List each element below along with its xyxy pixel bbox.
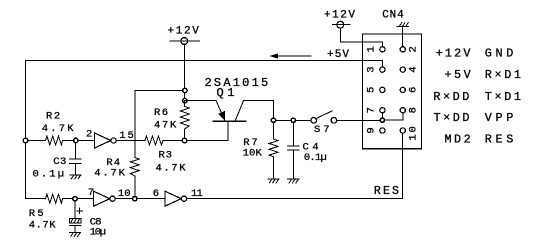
resistor R4: [130, 158, 139, 177]
svg-text:0.1µ: 0.1µ: [304, 152, 327, 164]
wire row2 left lead: [26, 198, 46, 200]
wire R2 to gate1: [63, 140, 95, 142]
capacitor C3: [33, 141, 81, 181]
svg-text:T×D1: T×D1: [485, 90, 521, 104]
svg-text:10K: 10K: [243, 148, 263, 160]
wire +5V rail top: [26, 61, 383, 70]
node junction +12V lower: [183, 98, 187, 102]
resistor R2: [46, 136, 63, 145]
svg-text:+5V: +5V: [445, 68, 472, 82]
svg-text:2: 2: [86, 129, 92, 141]
svg-text:S7: S7: [314, 124, 330, 136]
node junction +12V upper: [183, 88, 187, 92]
resistor R3: [145, 136, 163, 145]
ground R7: [268, 179, 279, 183]
wire S7 to connector: [337, 119, 383, 121]
node junction R7: [271, 118, 275, 122]
wire row2 to RES: [187, 198, 403, 200]
ground C4: [288, 179, 299, 183]
svg-text:R×D1: R×D1: [485, 68, 521, 82]
arrow +5V direction: [272, 55, 312, 57]
svg-text:2SA1015: 2SA1015: [205, 76, 269, 90]
right net table: [433, 47, 521, 147]
node junction C8: [73, 197, 77, 201]
ground C8: [69, 232, 80, 236]
wire pin7 stem: [381, 110, 383, 120]
wire RES from pin10: [402, 131, 404, 199]
svg-text:4.7K: 4.7K: [156, 163, 187, 175]
svg-text:+5V: +5V: [327, 49, 349, 61]
capacitor C8 electrolytic: [69, 199, 106, 239]
svg-text:+12V: +12V: [168, 26, 200, 38]
svg-text:RES: RES: [374, 185, 399, 198]
svg-text:MD2: MD2: [445, 133, 471, 147]
ground C3: [70, 175, 81, 179]
svg-text:+12V: +12V: [324, 9, 355, 21]
svg-text:GND: GND: [485, 47, 514, 61]
wire +12V branch to R4: [135, 90, 185, 92]
wire output row: [274, 119, 312, 121]
svg-text:4: 4: [408, 66, 420, 72]
svg-text:3: 3: [366, 66, 378, 72]
svg-text:4.7K: 4.7K: [42, 123, 74, 135]
capacitor C4: [288, 120, 327, 179]
inverter gate U1a: [95, 133, 111, 148]
svg-text:5: 5: [366, 87, 378, 93]
resistor R7: [243, 120, 278, 179]
svg-text:10: 10: [118, 188, 131, 200]
wire left rail: [25, 61, 27, 199]
svg-text:4.7K: 4.7K: [94, 167, 125, 179]
transistor Q1 2SA1015: [185, 76, 274, 121]
svg-text:C3: C3: [53, 156, 66, 168]
svg-text:VPP: VPP: [485, 111, 514, 125]
node junction C3: [74, 138, 78, 142]
wire gate2 out: [115, 198, 165, 200]
node junction C4: [291, 118, 295, 122]
wire pin8 branch: [382, 110, 402, 120]
wire row1 left lead: [26, 140, 46, 142]
wire R5 to gate2: [63, 198, 94, 200]
svg-text:+12V: +12V: [436, 47, 472, 61]
chassis ground pin2: [397, 23, 409, 50]
wire vertical R4 line: [134, 91, 136, 158]
svg-text:R3: R3: [159, 150, 173, 162]
inverter gate U1b: [94, 191, 110, 206]
svg-text:T×DD: T×DD: [434, 111, 470, 125]
svg-text:CN4: CN4: [382, 9, 404, 21]
connector pins left column: [380, 47, 385, 133]
switch S7: [311, 111, 337, 136]
node junction pin7/8: [380, 118, 384, 122]
svg-text:1: 1: [366, 46, 378, 52]
node junction R4 bottom: [133, 197, 137, 201]
wire R3 to base stem: [163, 121, 228, 140]
svg-text:R2: R2: [46, 110, 60, 122]
connector CN4 box: [363, 34, 422, 149]
power +12V symbol B: [324, 9, 383, 49]
svg-text:R×DD: R×DD: [433, 90, 469, 104]
power +12V symbol A: [168, 26, 200, 101]
svg-text:8: 8: [408, 107, 420, 113]
svg-text:10µ: 10µ: [90, 226, 106, 238]
svg-text:R6: R6: [154, 107, 168, 119]
svg-text:6: 6: [153, 188, 159, 200]
svg-text:7: 7: [366, 107, 378, 113]
svg-text:10: 10: [408, 126, 420, 140]
svg-text:6: 6: [408, 87, 420, 93]
inverter gate U1c: [165, 191, 181, 206]
svg-text:R5: R5: [29, 208, 44, 220]
resistor R5: [46, 194, 63, 203]
connector pins right column: [400, 47, 405, 133]
svg-text:2: 2: [408, 46, 420, 52]
svg-text:9: 9: [366, 127, 378, 133]
svg-text:0.1µ: 0.1µ: [33, 168, 65, 180]
node junction row1 left: [23, 138, 27, 142]
svg-text:47K: 47K: [154, 119, 177, 131]
wire gate1 out to R3: [116, 140, 145, 142]
svg-text:RES: RES: [485, 133, 514, 147]
node junction R6 bottom: [182, 138, 186, 142]
svg-text:4.7K: 4.7K: [29, 220, 56, 232]
resistor R6: [154, 101, 189, 141]
